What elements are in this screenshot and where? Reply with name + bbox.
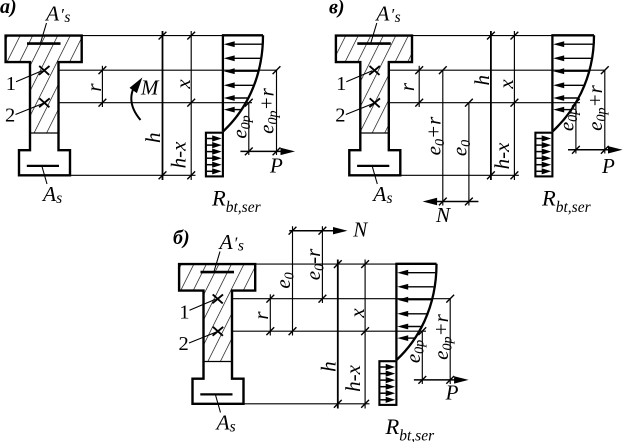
svg-text:а): а) (0, 0, 17, 18)
svg-text:r: r (395, 82, 419, 91)
svg-text:x: x (345, 308, 369, 319)
svg-text:h-x: h-x (341, 364, 365, 391)
svg-text:M: M (140, 76, 160, 100)
svg-text:2: 2 (335, 104, 345, 126)
svg-text:N: N (435, 203, 451, 227)
svg-text:x: x (171, 79, 195, 90)
svg-text:h: h (317, 361, 341, 372)
svg-text:1: 1 (6, 73, 16, 95)
svg-text:h: h (470, 75, 494, 86)
svg-text:h-x: h-x (490, 142, 514, 169)
svg-text:P: P (445, 381, 459, 405)
svg-text:x: x (494, 79, 518, 90)
svg-text:h-x: h-x (167, 141, 191, 168)
svg-text:e0+r: e0+r (421, 116, 448, 155)
svg-text:e0p+r: e0p+r (583, 84, 610, 130)
svg-text:P: P (269, 154, 283, 178)
svg-text:r: r (249, 311, 273, 320)
svg-text:2: 2 (5, 104, 15, 126)
svg-text:h: h (141, 132, 165, 143)
svg-text:e0p+r: e0p+r (255, 87, 282, 133)
svg-text:б): б) (173, 227, 190, 249)
svg-text:2: 2 (179, 333, 189, 355)
svg-text:e0-r: e0-r (301, 248, 328, 280)
svg-text:e0p+r: e0p+r (429, 313, 456, 359)
svg-text:1: 1 (179, 302, 189, 324)
svg-text:в): в) (329, 0, 345, 19)
svg-text:N: N (352, 217, 368, 241)
svg-text:1: 1 (336, 73, 346, 95)
svg-text:P: P (601, 154, 615, 178)
svg-text:r: r (82, 83, 106, 92)
